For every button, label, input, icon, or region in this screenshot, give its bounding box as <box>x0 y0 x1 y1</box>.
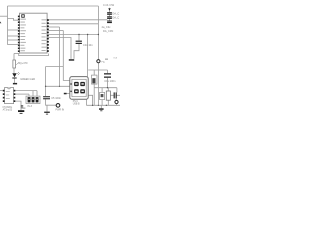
svg-text:PWR IN: PWR IN <box>56 108 65 111</box>
svg-text:DA_C3N: DA_C3N <box>103 29 113 33</box>
svg-text:AT1iny23: AT1iny23 <box>3 109 13 112</box>
svg-text:GREEN LED: GREEN LED <box>20 77 35 81</box>
svg-text:DA_C: DA_C <box>112 12 119 16</box>
svg-text:C4b NW: C4b NW <box>103 3 115 7</box>
svg-text:3Q+470: 3Q+470 <box>18 61 28 65</box>
svg-text:DA_C: DA_C <box>112 16 119 20</box>
svg-text:C3x 10n: C3x 10n <box>83 43 93 47</box>
svg-text:IN-3: IN-3 <box>27 105 32 108</box>
svg-text:USB B: USB B <box>73 103 80 105</box>
svg-text:4a_C3x: 4a_C3x <box>102 25 112 29</box>
svg-text:C1x 100n: C1x 100n <box>104 79 116 83</box>
svg-text:C5 100n: C5 100n <box>51 96 61 100</box>
